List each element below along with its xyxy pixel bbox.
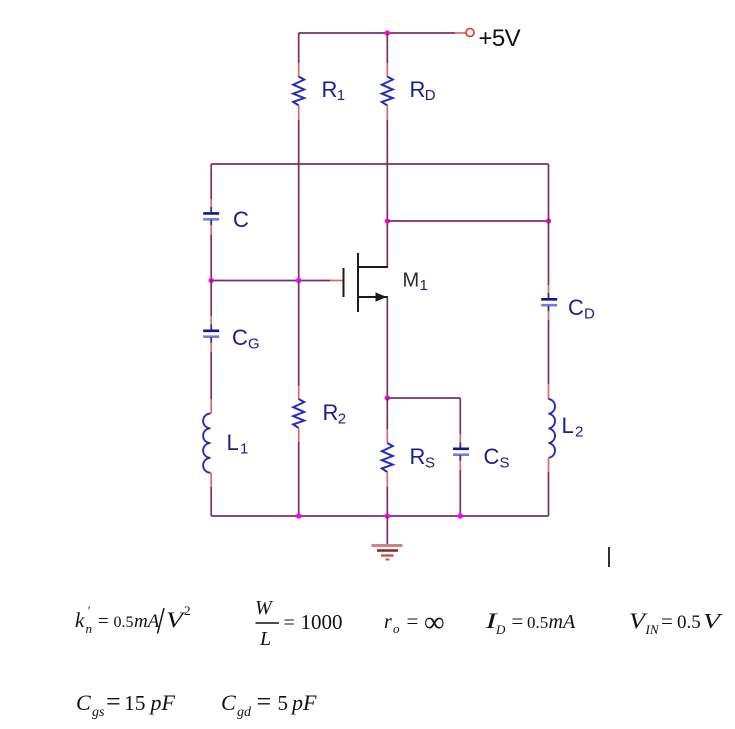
wire RS upper lead	[386, 398, 388, 444]
wire CS lower lead	[459, 461, 461, 517]
svg-text:5: 5	[278, 691, 289, 715]
svg-text:+5V: +5V	[479, 25, 521, 52]
cursor tick	[608, 547, 610, 567]
svg-text:G: G	[248, 336, 260, 353]
wire drain horizontal	[387, 220, 548, 222]
svg-text:R: R	[410, 77, 426, 102]
wire CG to L1	[210, 343, 212, 414]
node +5V terminal	[466, 29, 474, 37]
wire R1 branch upper	[298, 33, 300, 77]
equation Cgs	[76, 687, 176, 720]
transistor M1	[344, 253, 389, 312]
svg-text:gs: gs	[92, 705, 105, 720]
svg-text:2: 2	[338, 411, 346, 428]
label L2	[562, 413, 584, 441]
svg-text:=: =	[407, 609, 419, 633]
capacitor CG	[203, 325, 219, 344]
label RS	[410, 444, 436, 472]
equation ID	[484, 608, 576, 637]
svg-text:0.5: 0.5	[677, 612, 701, 633]
svg-text:∞: ∞	[424, 607, 445, 639]
wire supply top horizontal	[299, 32, 466, 34]
label RD	[410, 77, 436, 104]
capacitor C	[203, 207, 219, 226]
svg-text:2: 2	[184, 603, 191, 618]
resistor R1	[293, 77, 304, 106]
label R1	[322, 77, 346, 104]
inductor L2	[549, 399, 556, 458]
svg-text:=: =	[284, 612, 295, 634]
wire R2 branch upper	[298, 281, 300, 400]
svg-text:0.5: 0.5	[114, 614, 134, 631]
svg-text:n: n	[86, 621, 93, 636]
wire C to gate node	[210, 225, 212, 281]
svg-text:k: k	[75, 608, 85, 632]
svg-text:mA: mA	[549, 611, 576, 633]
capacitor CD	[541, 293, 557, 312]
wire right branch upper	[548, 164, 550, 294]
svg-text:D: D	[425, 87, 436, 104]
svg-text:=: =	[257, 687, 272, 716]
label CS	[484, 444, 510, 472]
svg-text:=: =	[661, 609, 673, 633]
svg-text:C: C	[484, 444, 500, 469]
svg-text:C: C	[221, 690, 236, 715]
label R2	[323, 400, 347, 428]
junction source node	[385, 395, 390, 400]
svg-text:=: =	[98, 611, 109, 632]
resistor RS	[382, 443, 393, 472]
svg-text:1: 1	[420, 277, 428, 294]
svg-text:D: D	[495, 622, 506, 637]
svg-text:': '	[87, 603, 90, 618]
wire L2 to bottom bus	[548, 458, 550, 516]
wire RD lower lead to drain	[386, 106, 388, 268]
svg-text:15: 15	[124, 691, 146, 715]
svg-text:L: L	[562, 413, 574, 438]
capacitor CS	[453, 443, 469, 462]
junction gate node left	[209, 278, 214, 283]
inductor L1	[203, 414, 210, 473]
label M1	[403, 270, 428, 295]
label CD	[568, 295, 595, 323]
wire top feedback bus	[211, 163, 548, 165]
resistor RD	[382, 77, 393, 106]
svg-text:o: o	[393, 621, 400, 636]
svg-text:IN: IN	[645, 622, 660, 637]
svg-text:C: C	[568, 295, 584, 320]
svg-text:S: S	[500, 455, 510, 472]
junction bottom CS	[458, 513, 463, 518]
svg-text:L: L	[227, 430, 239, 455]
label L1	[227, 430, 249, 458]
svg-text:W: W	[255, 597, 274, 619]
junction supply node	[385, 30, 390, 35]
svg-text:1: 1	[240, 441, 248, 458]
svg-text:V: V	[703, 609, 723, 633]
wire R1 lower lead	[298, 106, 300, 281]
svg-text:R: R	[322, 77, 338, 102]
svg-text:C: C	[232, 325, 248, 350]
svg-text:C: C	[233, 207, 249, 232]
wire gate horizontal	[211, 280, 343, 282]
wire R2 lower lead	[298, 428, 300, 516]
svg-text:=: =	[512, 609, 524, 633]
wire source down	[386, 297, 388, 398]
svg-text:R: R	[410, 444, 426, 469]
wire bottom bus	[211, 515, 548, 517]
junction bottom RS	[385, 513, 390, 518]
svg-text:0.5: 0.5	[527, 613, 548, 632]
svg-text:1000: 1000	[301, 610, 343, 634]
svg-text:L: L	[259, 628, 271, 650]
svg-text:pF: pF	[290, 690, 317, 715]
svg-text:R: R	[323, 400, 339, 425]
wire source to CS top	[387, 398, 460, 443]
svg-text:1: 1	[337, 87, 345, 104]
wire CD to L2	[548, 311, 550, 399]
wire RS lower lead	[386, 472, 388, 516]
svg-text:C: C	[76, 690, 91, 715]
junction bottom R2	[296, 513, 301, 518]
label CG	[232, 325, 260, 353]
svg-text:D: D	[584, 306, 595, 323]
svg-text:S: S	[425, 455, 435, 472]
wire left branch top	[210, 164, 212, 208]
junction gate node mid	[296, 278, 301, 283]
svg-text:=: =	[106, 687, 121, 716]
svg-text:pF: pF	[149, 690, 176, 715]
svg-text:gd: gd	[237, 705, 252, 720]
equation Cgd	[221, 687, 317, 720]
svg-text:r: r	[384, 611, 392, 633]
equation kn	[75, 603, 191, 636]
equation VIN	[629, 608, 723, 637]
svg-text:mA: mA	[134, 611, 160, 632]
wire L1 to bottom bus	[210, 473, 212, 516]
junction drain right node	[546, 218, 551, 223]
equation W/L	[255, 597, 343, 650]
ground	[372, 516, 403, 560]
svg-text:2: 2	[575, 424, 583, 441]
junction drain node	[385, 218, 390, 223]
resistor R2	[293, 399, 304, 428]
wire gate node to CG	[210, 281, 212, 326]
svg-text:M: M	[403, 270, 420, 292]
equation ro	[384, 607, 445, 639]
wire RD branch upper	[386, 33, 388, 77]
